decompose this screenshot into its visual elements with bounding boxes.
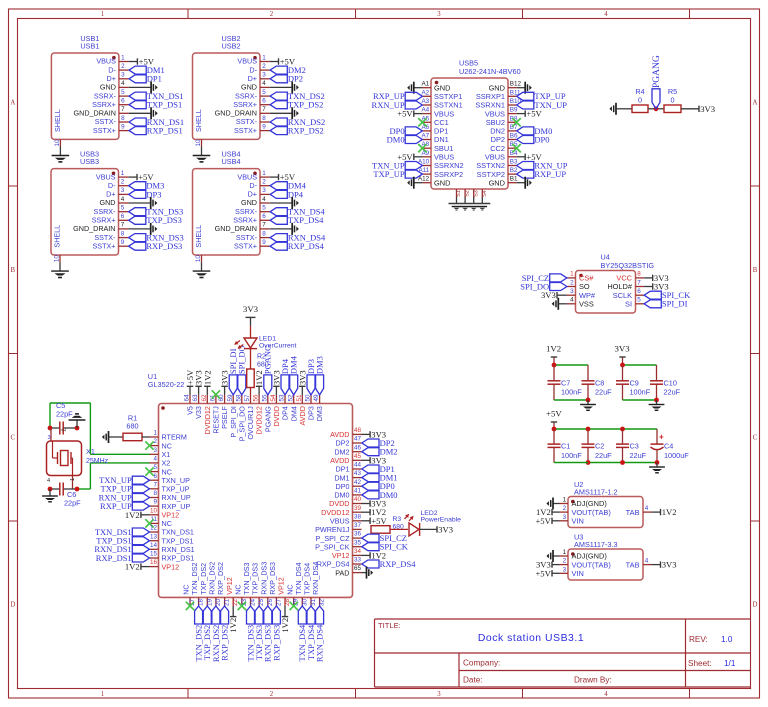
svg-text:GND_DRAIN: GND_DRAIN [215,109,257,118]
svg-text:DP4: DP4 [281,406,290,420]
svg-text:D-: D- [108,65,116,74]
svg-text:2: 2 [121,179,125,186]
svg-text:VP12: VP12 [277,577,286,595]
svg-text:22uF: 22uF [595,388,612,397]
svg-text:1: 1 [262,54,266,61]
svg-text:RXP_DS2: RXP_DS2 [288,126,324,136]
svg-text:54: 54 [270,394,277,402]
svg-text:A: A [10,100,15,107]
svg-text:4: 4 [262,80,266,87]
svg-text:RXP_DS1: RXP_DS1 [147,126,183,136]
svg-text:2: 2 [270,691,274,698]
svg-text:3: 3 [262,187,266,194]
svg-text:GND: GND [241,198,257,207]
svg-text:1V2: 1V2 [125,510,140,520]
svg-text:4: 4 [645,505,649,512]
svg-text:18: 18 [198,599,205,607]
svg-text:6: 6 [262,98,266,105]
svg-text:2: 2 [570,279,574,286]
svg-text:3V3: 3V3 [438,524,453,534]
svg-text:DP4: DP4 [288,189,304,199]
svg-text:1V2: 1V2 [662,507,677,517]
svg-text:+: + [659,433,664,442]
svg-text:D-: D- [249,181,257,190]
svg-text:A1: A1 [421,81,429,88]
svg-text:8: 8 [153,490,157,497]
svg-text:37: 37 [354,522,362,529]
svg-text:36: 36 [354,531,362,538]
svg-text:B3: B3 [510,159,518,166]
svg-text:9: 9 [262,239,266,246]
svg-text:SI: SI [625,300,632,309]
svg-text:1/1: 1/1 [724,659,736,668]
svg-text:SSTXP1: SSTXP1 [434,92,462,101]
svg-text:RXN_DS2: RXN_DS2 [208,562,217,595]
svg-text:1: 1 [121,54,125,61]
svg-text:1V2: 1V2 [228,618,238,633]
svg-text:2: 2 [563,558,567,565]
svg-text:22uF: 22uF [595,451,612,460]
svg-text:AMS1117-1.2: AMS1117-1.2 [574,488,618,497]
svg-text:40: 40 [354,496,362,503]
svg-text:1: 1 [101,11,104,18]
svg-text:DVDD12: DVDD12 [255,406,264,434]
svg-text:2: 2 [270,11,274,18]
svg-text:VIN: VIN [572,569,584,578]
svg-text:RESETJ: RESETJ [212,406,221,434]
svg-text:2: 2 [62,428,68,431]
svg-text:3V3: 3V3 [615,344,631,354]
svg-text:+5V: +5V [546,409,562,419]
svg-text:USB4: USB4 [222,157,241,166]
svg-text:32: 32 [319,599,326,607]
svg-text:C3: C3 [630,442,639,451]
svg-text:USB3: USB3 [80,157,99,166]
svg-text:2: 2 [563,505,567,512]
svg-text:SHELL: SHELL [53,109,62,132]
svg-text:PowerEnable: PowerEnable [421,517,462,524]
svg-text:RXP_DS4: RXP_DS4 [288,241,325,251]
svg-text:A3: A3 [421,98,429,105]
svg-text:34: 34 [354,548,362,555]
svg-text:C10: C10 [664,378,677,387]
svg-text:GND: GND [100,198,116,207]
svg-text:A: A [753,100,758,107]
svg-text:3: 3 [437,691,441,698]
svg-text:1: 1 [70,478,76,481]
svg-text:4: 4 [153,456,157,463]
svg-text:22pF: 22pF [56,410,73,419]
svg-text:7: 7 [262,106,266,113]
svg-text:AVDD: AVDD [298,406,307,425]
svg-text:GL3520-22: GL3520-22 [148,380,185,389]
svg-text:6: 6 [637,288,641,295]
svg-text:TXN_DS4: TXN_DS4 [294,562,303,594]
svg-text:TXN_DS2: TXN_DS2 [190,562,199,594]
svg-text:VBUS: VBUS [485,153,505,162]
svg-text:TXP_UP: TXP_UP [162,485,190,494]
svg-text:1: 1 [121,170,125,177]
svg-text:+5V: +5V [535,568,551,578]
svg-text:0: 0 [638,96,642,105]
svg-text:2: 2 [121,63,125,70]
svg-text:3: 3 [563,514,567,521]
svg-text:16: 16 [150,559,158,566]
svg-text:VBUS: VBUS [434,109,454,118]
svg-text:7: 7 [153,481,157,488]
svg-text:C: C [753,435,758,442]
svg-text:GND_DRAIN: GND_DRAIN [215,224,257,233]
svg-text:DM0: DM0 [387,134,405,144]
svg-text:REV:: REV: [689,635,708,644]
svg-text:100nF: 100nF [630,388,651,397]
svg-text:7: 7 [262,222,266,229]
svg-text:3V3: 3V3 [662,560,677,570]
svg-text:51: 51 [296,394,303,402]
svg-text:2: 2 [262,63,266,70]
svg-text:TXN_DS1: TXN_DS1 [162,528,194,537]
svg-text:3: 3 [437,11,441,18]
svg-text:RXN_DS4: RXN_DS4 [315,624,325,662]
svg-text:1: 1 [563,549,567,556]
svg-text:SHELL: SHELL [53,225,62,248]
svg-text:24: 24 [250,599,257,607]
svg-text:42: 42 [354,479,362,486]
svg-text:7: 7 [121,106,125,113]
svg-text:3: 3 [121,72,125,79]
svg-text:3: 3 [262,72,266,79]
svg-text:TAB: TAB [626,508,640,517]
svg-text:10: 10 [195,255,202,263]
svg-text:S2: S2 [465,190,471,197]
svg-text:3: 3 [570,288,574,295]
svg-text:V33: V33 [194,406,203,419]
svg-text:B12: B12 [510,81,522,88]
svg-text:D-: D- [249,65,257,74]
svg-text:6: 6 [153,473,157,480]
svg-text:C1: C1 [561,442,570,451]
svg-text:4: 4 [121,196,125,203]
svg-text:3: 3 [563,566,567,573]
svg-text:47: 47 [354,436,362,443]
svg-text:VOUT(TAB): VOUT(TAB) [572,508,611,517]
svg-text:TXP_DS2: TXP_DS2 [288,100,323,110]
svg-text:8: 8 [121,230,125,237]
svg-text:C9: C9 [630,378,639,387]
svg-text:NC: NC [233,584,242,594]
svg-text:Sheet:: Sheet: [688,659,712,668]
svg-text:C4: C4 [664,442,673,451]
svg-text:63: 63 [192,394,199,402]
svg-text:NC: NC [162,441,172,450]
svg-text:41: 41 [354,488,362,495]
svg-text:DP0: DP0 [336,482,350,491]
svg-text:VBUS: VBUS [485,109,505,118]
svg-text:P_SPI_DO: P_SPI_DO [237,406,246,442]
svg-text:PWREN1J: PWREN1J [315,525,350,534]
svg-text:4: 4 [604,691,608,698]
svg-text:5: 5 [153,464,157,471]
svg-text:5: 5 [121,89,125,96]
svg-text:TXP_UP: TXP_UP [373,169,404,179]
svg-text:A4: A4 [421,107,429,114]
svg-text:9: 9 [121,123,125,130]
svg-text:SSRXP1: SSRXP1 [476,92,505,101]
svg-text:VSS: VSS [579,300,594,309]
svg-text:5: 5 [637,297,641,304]
svg-text:7: 7 [637,279,641,286]
svg-text:SSTX+: SSTX+ [234,241,257,250]
svg-text:DM3: DM3 [315,406,324,421]
svg-text:3V3: 3V3 [541,290,556,300]
svg-text:VBUS: VBUS [434,153,454,162]
svg-text:B6: B6 [510,133,518,140]
svg-text:15: 15 [150,551,158,558]
svg-text:USB1: USB1 [80,41,99,50]
svg-text:2: 2 [262,179,266,186]
svg-text:22uF: 22uF [630,451,647,460]
svg-text:GND: GND [241,83,257,92]
svg-text:SSTX+: SSTX+ [93,241,116,250]
svg-text:U262-241N-4BV60: U262-241N-4BV60 [459,67,521,76]
svg-text:9: 9 [121,239,125,246]
svg-text:Dock station USB3.1: Dock station USB3.1 [478,633,584,644]
svg-text:TXP_DS3: TXP_DS3 [251,563,260,595]
svg-text:10: 10 [150,507,158,514]
svg-text:TITLE:: TITLE: [378,621,401,630]
svg-text:B9: B9 [510,107,518,114]
svg-text:9: 9 [153,499,157,506]
svg-text:Drawn By:: Drawn By: [574,676,612,685]
svg-text:RXP_UP: RXP_UP [534,169,566,179]
svg-text:1: 1 [563,497,567,504]
svg-text:38: 38 [354,513,362,520]
svg-text:1V2: 1V2 [280,618,290,633]
svg-text:RXP_UP: RXP_UP [162,502,191,511]
svg-text:3: 3 [121,187,125,194]
svg-text:26: 26 [267,599,274,607]
svg-text:TXP_DS3: TXP_DS3 [146,215,181,225]
svg-text:1: 1 [101,691,104,698]
svg-text:2: 2 [153,438,157,445]
svg-text:GND: GND [100,83,116,92]
svg-text:44: 44 [354,462,362,469]
svg-text:1000uF: 1000uF [664,451,689,460]
svg-text:USB2: USB2 [222,41,241,50]
svg-text:HOLD#: HOLD# [607,282,633,291]
svg-text:27: 27 [275,599,282,607]
svg-text:22uF: 22uF [664,388,681,397]
svg-text:GND: GND [434,178,450,187]
svg-text:30: 30 [301,599,308,607]
svg-text:33: 33 [354,557,362,564]
svg-text:6: 6 [121,98,125,105]
svg-text:3V3: 3V3 [700,104,715,114]
svg-text:10: 10 [54,139,61,147]
svg-text:65: 65 [354,565,362,572]
svg-text:Date:: Date: [463,676,483,685]
svg-text:14: 14 [150,542,158,549]
svg-text:4: 4 [645,558,649,565]
svg-text:5: 5 [121,205,125,212]
svg-text:DP0: DP0 [534,134,549,144]
svg-text:20: 20 [215,599,222,607]
svg-text:1.0: 1.0 [721,635,733,644]
svg-text:13: 13 [150,533,158,540]
svg-text:PGANG: PGANG [652,55,662,88]
svg-text:DP3: DP3 [146,189,161,199]
svg-text:RXN_DS4: RXN_DS4 [311,562,320,595]
svg-text:DP1: DP1 [147,74,162,84]
svg-text:TAB: TAB [626,560,640,569]
svg-text:4: 4 [570,297,574,304]
svg-text:B: B [753,267,758,274]
svg-text:SHELL: SHELL [194,225,203,248]
svg-text:TXP_DS1: TXP_DS1 [147,100,182,110]
svg-text:B1: B1 [510,176,518,183]
svg-text:P_SPI_CK: P_SPI_CK [315,542,350,551]
svg-text:4: 4 [262,196,266,203]
svg-text:D: D [10,602,15,609]
svg-text:PGANG: PGANG [263,345,273,374]
svg-text:8: 8 [262,115,266,122]
svg-text:TXP_DS4: TXP_DS4 [288,215,324,225]
svg-text:AMS1117-3.3: AMS1117-3.3 [574,540,618,549]
svg-text:25: 25 [258,599,265,607]
svg-text:3V3: 3V3 [243,304,259,314]
svg-text:S4: S4 [482,190,488,197]
svg-text:SO: SO [579,282,590,291]
svg-text:C8: C8 [595,378,604,387]
svg-text:1: 1 [153,430,157,437]
svg-text:RXP_DS3: RXP_DS3 [146,241,182,251]
svg-text:+5V: +5V [526,109,542,119]
svg-text:SSTX+: SSTX+ [234,126,257,135]
svg-text:RXP_DS4: RXP_DS4 [380,559,417,569]
svg-text:B: B [11,267,16,274]
svg-text:19: 19 [206,599,213,607]
svg-text:7: 7 [121,222,125,229]
svg-text:62: 62 [201,394,208,402]
svg-text:+5V: +5V [397,109,413,119]
svg-text:PAD: PAD [335,568,349,577]
svg-text:A2: A2 [421,89,429,96]
svg-text:3: 3 [153,447,157,454]
svg-text:SSTX+: SSTX+ [93,126,116,135]
svg-text:+5V: +5V [371,516,387,526]
svg-text:R3: R3 [393,516,402,523]
svg-text:GND_DRAIN: GND_DRAIN [74,109,116,118]
svg-text:4: 4 [604,11,608,18]
svg-text:A7: A7 [421,133,429,140]
svg-text:GND_DRAIN: GND_DRAIN [73,224,115,233]
svg-text:8: 8 [121,115,125,122]
svg-text:4: 4 [47,478,50,484]
svg-text:0: 0 [670,96,674,105]
svg-text:39: 39 [354,505,362,512]
svg-text:57: 57 [244,394,251,402]
svg-text:DM3: DM3 [315,356,325,374]
svg-text:45: 45 [354,453,362,460]
svg-text:DP2: DP2 [336,439,350,448]
svg-text:1: 1 [262,170,266,177]
svg-text:5: 5 [262,205,266,212]
svg-text:25MHz: 25MHz [86,458,109,465]
svg-text:5: 5 [262,89,266,96]
svg-text:10: 10 [195,139,202,147]
svg-text:GND: GND [489,178,505,187]
svg-text:1V2: 1V2 [125,562,140,572]
svg-text:1V2: 1V2 [546,344,561,354]
svg-text:8: 8 [262,230,266,237]
svg-text:4: 4 [121,80,125,87]
svg-text:BY25Q32BSTIG: BY25Q32BSTIG [601,261,655,270]
svg-text:10: 10 [54,255,61,263]
svg-text:C2: C2 [595,442,604,451]
svg-text:S3: S3 [473,190,479,197]
svg-text:9: 9 [262,123,266,130]
svg-text:D: D [753,602,758,609]
svg-text:DVDD: DVDD [329,499,349,508]
svg-text:C: C [11,435,16,442]
svg-text:DP2: DP2 [288,74,303,84]
svg-text:A12: A12 [418,176,430,183]
svg-text:6: 6 [262,213,266,220]
svg-text:56: 56 [253,394,260,402]
svg-text:VIN: VIN [572,517,584,526]
svg-text:1V2: 1V2 [202,370,212,385]
svg-text:31: 31 [310,599,317,607]
svg-text:64: 64 [184,394,191,402]
svg-text:S1: S1 [456,190,462,197]
svg-text:X2: X2 [162,459,171,468]
svg-text:B2: B2 [510,167,518,174]
svg-text:6: 6 [121,213,125,220]
svg-text:22pF: 22pF [64,499,81,508]
svg-text:VP12: VP12 [162,562,180,571]
svg-text:21: 21 [224,599,231,607]
svg-text:DN1: DN1 [434,135,449,144]
svg-text:3: 3 [48,435,51,441]
svg-text:48: 48 [354,427,362,434]
svg-text:35: 35 [354,539,362,546]
svg-text:DP2: DP2 [491,135,505,144]
svg-text:100nF: 100nF [561,451,582,460]
svg-text:43: 43 [354,470,362,477]
svg-text:1: 1 [570,271,574,278]
svg-text:AVDD: AVDD [330,456,349,465]
svg-text:12: 12 [150,525,158,532]
svg-text:RXN_DS1: RXN_DS1 [162,545,195,554]
svg-text:D-: D- [108,181,116,190]
svg-text:46: 46 [354,444,362,451]
svg-text:SPI_DI: SPI_DI [662,299,688,309]
svg-text:Company:: Company: [463,659,500,668]
svg-text:680: 680 [126,422,138,431]
svg-text:VOUT(TAB): VOUT(TAB) [572,560,611,569]
svg-text:+5V: +5V [535,516,551,526]
svg-text:C7: C7 [561,378,570,387]
svg-text:8: 8 [637,271,641,278]
svg-text:100nF: 100nF [561,388,582,397]
svg-text:SHELL: SHELL [194,109,203,132]
svg-text:SPI_DO: SPI_DO [237,345,247,374]
